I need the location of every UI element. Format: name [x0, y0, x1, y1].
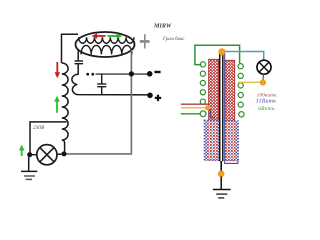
- capacitor C1 bottom lead: [77, 64, 79, 75]
- wire from toroid left to winding L1: [62, 34, 79, 63]
- capacitor C2 top lead: [101, 74, 103, 84]
- red current arrow (left) in toroid: [92, 33, 106, 38]
- lamp LA1 (230V bulb): [37, 145, 57, 165]
- secondary winding upper-left block: [209, 59, 219, 120]
- tap dot a: [86, 73, 89, 76]
- svg-text:Грам бокс: Грам бокс: [162, 36, 185, 42]
- navy winding end lead: [210, 110, 215, 118]
- orange node on yellow stub: [205, 106, 210, 111]
- minus terminal node: [147, 71, 153, 77]
- plus sign label: [155, 95, 161, 101]
- orange node below lamp: [260, 80, 265, 85]
- svg-text:230В: 230В: [33, 125, 45, 131]
- inductor L1 (tall winding, 7 bumps): [62, 63, 68, 143]
- svg-text:11Витк: 11Витк: [256, 98, 277, 104]
- toroid transformer T1 core (ellipse): [76, 32, 135, 57]
- teal wire rod-top to lamp: [225, 52, 264, 61]
- lamp box wires (230V branch): [30, 122, 67, 153]
- red tap stub wire: [181, 103, 209, 105]
- winding lower-right block: [225, 121, 238, 161]
- primary turns left column (circles): [200, 62, 206, 117]
- tap dot b: [91, 73, 94, 76]
- green top link wire: [195, 45, 240, 64]
- green arrow up beside lamp: [19, 145, 25, 156]
- primary turns right column (circles): [238, 64, 244, 117]
- inductor L2 (feedback winding, 2 bumps): [72, 74, 150, 95]
- yellow tap stub wire: [181, 107, 206, 109]
- wire lamp LA1 left lead: [30, 154, 37, 156]
- red arrow down beside L1: [55, 62, 61, 78]
- core rod: [220, 52, 223, 172]
- orange node rod top: [219, 49, 225, 55]
- lamp LA2 (neon indicator): [257, 60, 271, 74]
- ground GND1: [21, 157, 37, 179]
- green arrow up beside L1: [54, 96, 60, 113]
- navy winding lead along rod: [225, 53, 238, 163]
- secondary winding upper-right block: [225, 60, 235, 121]
- node at lamp left: [27, 152, 32, 157]
- wire lamp LA1 right lead: [57, 153, 64, 155]
- toroid top winding scallops: [79, 37, 134, 43]
- minus sign label: [154, 71, 160, 73]
- winding lower-left block: [204, 120, 218, 160]
- toroid bottom winding scallops: [81, 45, 132, 54]
- svg-text:MIRW: MIRW: [153, 23, 172, 30]
- capacitor C1 top lead: [77, 51, 79, 62]
- ground GND2: [213, 177, 231, 198]
- grey trimmer plus symbol: [140, 34, 150, 48]
- plus terminal node: [147, 93, 153, 99]
- tap wire with dots to minus terminal: [96, 73, 148, 75]
- capacitor C1 plates: [75, 61, 84, 64]
- grey bus wire from toroid right down to lamp wire: [64, 50, 131, 154]
- capacitor C2 bottom lead: [101, 87, 103, 95]
- orange node rod bottom: [218, 171, 224, 177]
- junction node on minus line: [129, 71, 134, 76]
- node at lamp right / L1 bottom: [62, 151, 67, 156]
- svg-text:6Витк.: 6Витк.: [258, 106, 276, 112]
- yellow wire lamp to winding tap: [238, 81, 261, 83]
- green tap stub wire: [181, 113, 201, 115]
- green current arrow (right) in toroid: [108, 33, 123, 38]
- lamp LA2 bottom lead: [262, 74, 265, 80]
- capacitor C2 plates: [97, 84, 106, 87]
- wire L1 bottom lead: [64, 143, 66, 155]
